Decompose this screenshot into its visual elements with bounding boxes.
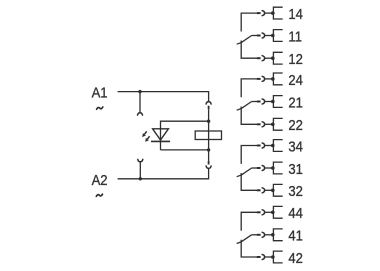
svg-text:41: 41	[288, 228, 303, 245]
NC fixed contact lead (terminal 22)	[241, 107, 257, 125]
node A2 junction	[139, 177, 142, 180]
plug socket row 24	[262, 76, 264, 81]
AC symbol under A1	[97, 107, 103, 109]
svg-text:32: 32	[288, 183, 303, 200]
terminal clamp 31	[273, 162, 282, 174]
svg-text:A2: A2	[92, 172, 108, 189]
wire common row 31	[252, 167, 257, 169]
plug pin row 24	[257, 78, 261, 80]
plug pin row 34	[257, 145, 261, 147]
LED D1 cathode bar	[151, 140, 170, 142]
node clamp junction 24	[271, 77, 275, 81]
plug socket row 21	[262, 99, 264, 104]
node clamp junction 44	[271, 211, 275, 215]
NO fixed contact lead (terminal 14)	[241, 13, 257, 31]
svg-text:14: 14	[288, 6, 303, 23]
node coil bottom junction	[207, 148, 210, 151]
plug socket row 44	[262, 210, 264, 215]
wire common row 41	[252, 234, 257, 236]
wire LED branch top	[161, 120, 209, 122]
wire socket to clamp 11	[265, 35, 274, 37]
plug pin coil top	[208, 106, 210, 110]
terminal clamp 22	[273, 118, 282, 130]
wire coil branch vertical	[208, 121, 210, 150]
plug pin row 44	[257, 211, 261, 213]
plug socket coil top	[206, 102, 211, 104]
NC contact pad dash	[237, 109, 241, 111]
wire socket to clamp 21	[265, 101, 274, 103]
node clamp junction 12	[271, 56, 275, 60]
wire LED branch vertical	[160, 121, 162, 150]
wire socket down to A2 rail	[208, 169, 210, 180]
wire socket to clamp 31	[265, 167, 274, 169]
NO fixed contact lead (terminal 44)	[241, 212, 257, 230]
plug socket row 31	[262, 166, 264, 171]
plug socket row 12	[262, 56, 264, 61]
NC fixed contact lead (terminal 42)	[241, 240, 257, 257]
wire socket to clamp 14	[265, 12, 274, 14]
LED emission arrow 2	[145, 136, 149, 142]
node clamp junction 31	[271, 166, 275, 170]
AC symbol under A2	[96, 194, 102, 196]
movable contact blade (common 21)	[241, 102, 252, 109]
terminal clamp 34	[273, 140, 282, 152]
node clamp junction 32	[271, 189, 275, 193]
plug socket row 32	[262, 188, 264, 193]
wire socket to clamp 44	[265, 211, 274, 213]
svg-text:12: 12	[288, 51, 303, 68]
LED D1 triangle	[153, 129, 169, 140]
plug pin row 21	[257, 101, 261, 103]
wire socket to clamp 41	[265, 234, 274, 236]
wire A1 rail	[118, 91, 209, 93]
svg-text:34: 34	[288, 139, 303, 156]
node coil top junction	[207, 120, 210, 123]
terminal clamp 42	[273, 251, 282, 263]
plug pin row 12	[257, 57, 261, 59]
node clamp junction 42	[271, 255, 275, 259]
NC contact pad dash	[237, 175, 241, 177]
wire socket to clamp 24	[265, 78, 274, 80]
plug socket row 42	[262, 255, 264, 260]
node clamp junction 21	[271, 100, 275, 104]
plug pin row 14	[257, 12, 261, 14]
movable contact blade (common 31)	[241, 168, 252, 175]
relay coil K1	[195, 131, 221, 140]
NC contact pad dash	[237, 43, 241, 45]
NC fixed contact lead (terminal 32)	[241, 173, 257, 190]
plug socket on A1 stub	[138, 113, 143, 115]
terminal clamp 14	[273, 7, 282, 19]
plug socket coil bottom	[206, 166, 211, 168]
terminal clamp 41	[273, 229, 282, 241]
terminal clamp 32	[273, 184, 282, 196]
svg-text:24: 24	[288, 72, 303, 89]
terminal clamp 11	[273, 30, 282, 42]
plug pin row 42	[257, 256, 261, 258]
wire LED branch bottom	[161, 149, 209, 151]
svg-text:44: 44	[288, 205, 303, 222]
wire A2 socket stub	[139, 162, 141, 179]
svg-text:31: 31	[288, 161, 303, 178]
node clamp junction 14	[271, 11, 275, 15]
wire pin to coil-top node	[208, 109, 210, 121]
plug pin row 41	[257, 234, 261, 236]
node A1 junction	[138, 90, 141, 93]
node clamp junction 22	[271, 123, 275, 127]
plug socket row 22	[262, 122, 264, 127]
svg-text:11: 11	[288, 29, 302, 46]
terminal clamp 12	[273, 52, 282, 64]
wire socket to clamp 12	[265, 57, 274, 59]
wire A1 down to coil plug	[208, 91, 210, 101]
plug pin row 11	[257, 35, 261, 37]
plug pin row 22	[257, 123, 261, 125]
terminal clamp 21	[273, 96, 282, 108]
wire socket to clamp 34	[265, 145, 274, 147]
movable contact blade (common 41)	[241, 235, 252, 242]
wire socket to clamp 22	[265, 123, 274, 125]
plug pin row 32	[257, 189, 261, 191]
wire common row 11	[252, 35, 257, 37]
svg-text:A1: A1	[92, 85, 108, 102]
movable contact blade (common 11)	[241, 36, 252, 43]
wire common row 21	[252, 101, 257, 103]
svg-text:22: 22	[288, 117, 303, 134]
NC contact pad dash	[237, 242, 241, 244]
NO fixed contact lead (terminal 24)	[241, 79, 257, 97]
plug pin coil bottom	[208, 161, 210, 165]
wire coil-bottom to pin	[208, 150, 210, 161]
NO fixed contact lead (terminal 34)	[241, 146, 257, 164]
terminal clamp 24	[273, 73, 282, 85]
LED emission arrow 1	[142, 131, 147, 137]
wire A2 rail	[118, 178, 209, 180]
terminal clamp 44	[273, 206, 282, 218]
plug pin row 31	[257, 167, 261, 169]
plug socket row 11	[262, 33, 264, 38]
plug socket row 34	[262, 143, 264, 148]
wire A1 socket stub	[139, 92, 141, 113]
NC fixed contact lead (terminal 12)	[241, 41, 257, 59]
plug socket row 14	[262, 11, 264, 16]
plug socket on A2 stub	[138, 159, 143, 161]
svg-text:21: 21	[288, 95, 303, 112]
plug socket row 41	[262, 232, 264, 237]
node clamp junction 34	[271, 144, 275, 148]
wire socket to clamp 42	[265, 256, 274, 258]
node clamp junction 41	[271, 233, 275, 237]
wire socket to clamp 32	[265, 189, 274, 191]
node clamp junction 11	[271, 34, 275, 38]
svg-text:42: 42	[288, 250, 303, 267]
